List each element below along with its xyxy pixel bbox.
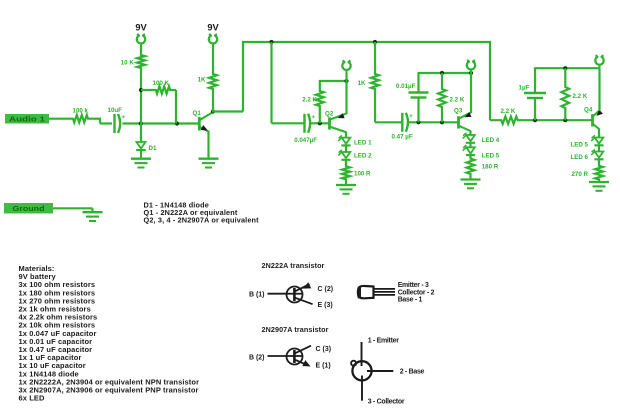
svg-text:B (2): B (2) xyxy=(249,354,265,361)
svg-text:6x LED: 6x LED xyxy=(19,394,46,403)
svg-text:B (1): B (1) xyxy=(249,292,265,299)
svg-text:Q2: Q2 xyxy=(325,110,334,117)
svg-text:3 - Collector: 3 - Collector xyxy=(368,398,405,405)
svg-text:100 k: 100 k xyxy=(73,108,89,115)
svg-text:1K: 1K xyxy=(358,80,366,87)
svg-text:E (3): E (3) xyxy=(318,302,333,309)
svg-text:100 R: 100 R xyxy=(354,171,371,178)
svg-text:LED 2: LED 2 xyxy=(354,153,372,160)
svg-text:Ground: Ground xyxy=(13,206,45,213)
svg-text:E (1): E (1) xyxy=(316,363,331,370)
svg-text:10 K: 10 K xyxy=(121,60,135,67)
svg-text:1 - Emitter: 1 - Emitter xyxy=(368,338,400,345)
svg-text:0.47 µF: 0.47 µF xyxy=(392,134,413,141)
svg-text:180 R: 180 R xyxy=(482,163,499,170)
svg-text:9V: 9V xyxy=(207,23,219,33)
svg-text:10uF: 10uF xyxy=(108,107,123,114)
svg-text:C (3): C (3) xyxy=(316,346,332,353)
svg-text:Audio 1: Audio 1 xyxy=(9,114,45,123)
svg-text:2.2 K: 2.2 K xyxy=(450,97,465,104)
svg-text:LED 5: LED 5 xyxy=(482,152,500,159)
svg-text:2.2 K: 2.2 K xyxy=(302,97,317,104)
svg-text:LED 5: LED 5 xyxy=(570,142,588,149)
svg-text:3x 2N2907A, 2N3906 or equivale: 3x 2N2907A, 2N3906 or equivalent PNP tra… xyxy=(19,386,199,395)
svg-text:0.01µF: 0.01µF xyxy=(396,83,416,90)
svg-text:Q2, 3, 4 - 2N2907A or equivale: Q2, 3, 4 - 2N2907A or equivalent xyxy=(144,215,260,224)
svg-text:D1: D1 xyxy=(149,145,157,152)
svg-text:2N222A transistor: 2N222A transistor xyxy=(262,261,325,270)
svg-text:Base - 1: Base - 1 xyxy=(398,297,423,304)
svg-text:+: + xyxy=(409,114,413,120)
svg-text:270 R: 270 R xyxy=(571,171,588,178)
svg-text:Collector - 2: Collector - 2 xyxy=(398,289,435,296)
svg-text:LED 1: LED 1 xyxy=(354,140,372,147)
svg-text:+: + xyxy=(122,115,126,121)
svg-text:2.2 K: 2.2 K xyxy=(573,93,588,100)
svg-text:1µF: 1µF xyxy=(519,85,530,92)
svg-text:Emitter - 3: Emitter - 3 xyxy=(398,282,429,289)
svg-text:Q3: Q3 xyxy=(454,108,463,115)
svg-text:9V: 9V xyxy=(135,23,147,33)
svg-text:+: + xyxy=(312,115,316,121)
svg-text:LED 6: LED 6 xyxy=(570,154,588,161)
svg-text:Q4: Q4 xyxy=(584,107,593,114)
svg-text:100 K: 100 K xyxy=(153,80,170,87)
svg-text:C (2): C (2) xyxy=(318,286,334,293)
svg-text:2 - Base: 2 - Base xyxy=(400,368,425,375)
svg-text:LED 4: LED 4 xyxy=(482,137,500,144)
svg-text:1K: 1K xyxy=(198,77,206,84)
svg-text:2N2907A transistor: 2N2907A transistor xyxy=(262,325,329,334)
svg-text:0.047µF: 0.047µF xyxy=(294,137,317,144)
svg-text:Q1: Q1 xyxy=(193,110,202,117)
svg-text:2.2 K: 2.2 K xyxy=(501,108,516,115)
